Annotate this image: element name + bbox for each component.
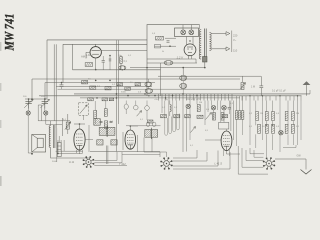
svg-text:1M: 1M (260, 113, 263, 115)
wire bus to power box (47, 39, 147, 41)
trimmer cap IF2b (153, 122, 156, 126)
svg-text:U 11: U 11 (69, 161, 75, 164)
resistor R2 (120, 55, 123, 70)
wire v1 sides (123, 132, 138, 152)
ground chassis (301, 170, 312, 175)
wire s3 right (275, 159, 306, 170)
resistor R33 (94, 101, 97, 124)
wire v2 to s3 (224, 150, 241, 156)
capacitor C3 (119, 66, 126, 71)
resistor R35 arrow (137, 111, 142, 117)
junction dots bus (95, 80, 198, 99)
resistor R26 (258, 124, 261, 133)
wire right columns (250, 101, 301, 158)
transformer Tr2 core (54, 125, 55, 148)
socket S1 (83, 156, 95, 168)
resistor R13 (174, 115, 180, 118)
wire s2 nest (160, 150, 230, 169)
wire long s1 (90, 151, 160, 153)
dial lamp La3 (26, 109, 30, 116)
wire s1 nest (94, 152, 127, 166)
resistor R12 (161, 115, 167, 118)
svg-text:MW 741: MW 741 (2, 14, 17, 52)
wire bus left drop1 (31, 79, 33, 99)
potentiometer P1 (240, 76, 246, 89)
svg-text:T 412: T 412 (119, 162, 126, 166)
coil box L1 (94, 119, 101, 126)
label 0,1uF (272, 91, 286, 93)
value labels group (23, 33, 300, 163)
svg-text:110: 110 (233, 49, 238, 53)
junction dots right bus (249, 95, 298, 126)
volume potentiometer (79, 103, 89, 120)
label GW (297, 155, 302, 158)
wire mid bottom long (116, 152, 160, 155)
wire center drops (162, 101, 234, 153)
transformer core shade (203, 57, 208, 63)
pilot lamp La1 (181, 30, 186, 35)
wire box bottom (147, 59, 197, 63)
svg-text:1 AB 2: 1 AB 2 (86, 54, 93, 57)
switch contact S1b (222, 106, 226, 110)
svg-text:L 41 S: L 41 S (215, 162, 223, 166)
wire v3 left wires (63, 114, 68, 136)
wire junction comb center (159, 94, 233, 101)
wire nested corner A (46, 40, 48, 99)
wire junction comb right (242, 96, 301, 101)
resistor R22 (241, 111, 244, 120)
resistor R10 (104, 121, 107, 129)
resistor R20 (156, 36, 164, 40)
wire if2 drops (144, 127, 152, 153)
parts cluster lower (88, 97, 117, 101)
wire feed y70 (73, 44, 161, 70)
socket S2 (160, 157, 173, 170)
resistor R34 (104, 101, 107, 116)
pilot lamp La2 (189, 30, 194, 35)
IF transformer 2 coils (145, 128, 158, 139)
resistor R1 (85, 63, 93, 67)
wire s1 lines (56, 140, 83, 154)
wire switch hooks (165, 101, 179, 136)
capacitor C33 (180, 83, 187, 94)
scan artifact marks (0, 42, 2, 186)
potentiometer arrow (206, 113, 212, 120)
dial lamp La4 (44, 109, 48, 116)
resistor R16 (197, 115, 203, 118)
IF transformer coils (99, 126, 115, 138)
wire bus2 to power box (63, 43, 147, 45)
wire v3 top (74, 123, 85, 129)
wire nest right mid (283, 145, 296, 148)
wire bus94 end (309, 90, 311, 94)
resistor R14 (185, 115, 191, 118)
wire screened pair L (54, 44, 56, 128)
potentiometer arrow 2 (191, 127, 196, 133)
wire rect to lamps (187, 37, 194, 46)
wire mains top (211, 32, 230, 36)
svg-text:220: 220 (233, 34, 238, 38)
resistor R11 (147, 120, 153, 123)
resistor R8 (135, 83, 141, 86)
wire px links (161, 38, 177, 47)
pickup terminal (303, 81, 311, 96)
wire bus y94 (74, 93, 310, 95)
trimmer T1 (134, 101, 139, 110)
trimmer cap IF2a (146, 122, 149, 126)
transformer Tr secondary (209, 33, 211, 51)
capacitor C2 (109, 55, 111, 70)
trimmer T2 (145, 101, 150, 121)
label mains2 (233, 49, 238, 53)
resistor R29 (285, 112, 288, 121)
variable capacitor C6 (40, 99, 49, 109)
resistor R24 (265, 112, 268, 121)
capacitor C10 (124, 101, 128, 115)
wire transformer tap (196, 25, 200, 63)
wire eye left (86, 52, 90, 58)
tube V2 (221, 131, 232, 151)
variable capacitor C5 (24, 99, 33, 109)
transformer Tr core (205, 29, 207, 61)
wire mains bottom (211, 47, 230, 51)
svg-text:0,1 µF 0,1 µF: 0,1 µF 0,1 µF (272, 91, 286, 93)
wire y121 (38, 120, 70, 122)
wire bus y76 (158, 75, 261, 77)
label +Ua (186, 99, 201, 101)
resistor R32 (292, 124, 295, 133)
fuse Si (155, 45, 161, 48)
socket S3 (263, 157, 276, 170)
resistor R23 (256, 112, 259, 121)
wire s2 uplinks (144, 152, 167, 157)
label V2 type (215, 162, 223, 166)
resistor R28 (272, 124, 275, 133)
switch contact S2 (279, 131, 283, 135)
switch contact S1a (211, 106, 215, 110)
wire osc links (38, 105, 42, 121)
wire v1 top (130, 125, 139, 130)
resistor R4 (90, 86, 96, 89)
wire bus y96 corner (38, 96, 40, 99)
wire screened pair 2 (106, 146, 108, 165)
wire gang bottoms (28, 115, 46, 153)
capacitor C31 (164, 61, 173, 65)
label 1W (69, 161, 75, 164)
resistor R21 (238, 111, 241, 120)
wire nested corner B (62, 44, 64, 82)
wire avc line (126, 125, 205, 127)
resistor R31 (285, 124, 288, 133)
svg-text:1M: 1M (199, 102, 202, 104)
rectifier tube V5 (184, 44, 196, 59)
switch contact S1c (186, 104, 190, 108)
wire right bank drops (237, 96, 243, 146)
svg-text:+Ua +Ug -4,5: +Ua +Ug -4,5 (186, 99, 201, 101)
svg-text:1 M: 1 M (251, 86, 255, 89)
wire v2 left link (205, 139, 221, 141)
resistor R5 (105, 87, 111, 90)
wire tr2 top (50, 121, 52, 126)
label 220V (233, 34, 238, 43)
box diode load (219, 122, 229, 129)
wire lamp feeds (183, 25, 192, 30)
label AM2 (81, 55, 88, 59)
wire gang top (25, 98, 47, 100)
tuning indicator tube V4 (90, 45, 101, 59)
resistor R37 (221, 113, 224, 121)
trimmer caps IF1 (100, 121, 113, 122)
transformer Tr2 primary (49, 126, 51, 148)
wire bus y92 (58, 88, 241, 90)
svg-text:2M: 2M (296, 113, 299, 115)
wire bus y96 (39, 95, 302, 97)
wire tr2 verts (46, 128, 57, 162)
resistor R7 (125, 87, 131, 90)
resistor R3 (82, 81, 88, 84)
resistor R27 (265, 124, 268, 133)
capacitor C34 (145, 79, 152, 89)
wire bus y98 (80, 97, 240, 99)
label 1,2V (177, 56, 185, 60)
resistor R15 (197, 105, 200, 112)
wire bus y88 (57, 86, 153, 88)
wire caps drop (130, 67, 206, 76)
capacitor C30 (167, 41, 170, 42)
transformer Tr primary (199, 30, 201, 59)
resistor R9 vdr (65, 122, 71, 130)
svg-text:+Ug: +Ug (164, 99, 168, 101)
wire screened pair (116, 40, 118, 151)
capacitor C9 (259, 76, 263, 95)
label 1M (251, 86, 255, 89)
wire transformer down (204, 62, 206, 68)
output tube V3 (74, 129, 85, 150)
svg-text:5000: 5000 (121, 92, 127, 94)
wire bus left drop2 (44, 83, 46, 99)
tube V3 pins (77, 150, 83, 154)
title label MW 741 (2, 14, 17, 52)
wire y63 vert (160, 63, 162, 96)
lamp box (175, 28, 199, 37)
wire v3 right (85, 125, 93, 152)
label 0,1 (124, 61, 128, 63)
capacitor C32 (180, 75, 187, 83)
coil box L4 (111, 140, 117, 145)
resistor R19 (235, 111, 238, 120)
wire y124 (46, 123, 62, 125)
capacitor C7 (57, 136, 61, 157)
wire power box outline (147, 25, 200, 96)
wire bus y83 (45, 82, 155, 84)
tube V1 (125, 130, 136, 149)
coil L3 (170, 101, 171, 117)
resistor R25 (272, 112, 275, 121)
wire s3 nest (238, 146, 268, 174)
wire eye bottom (95, 51, 147, 71)
wire mains link (231, 31, 233, 53)
capacitor C35 (145, 89, 153, 97)
resistor R36 (213, 113, 216, 121)
svg-text:V~: V~ (233, 38, 237, 42)
label V1 type (119, 162, 126, 166)
capacitor C1 (102, 56, 105, 70)
speaker LS (31, 135, 45, 155)
resistor R18 (222, 115, 228, 118)
coil box L2 (97, 140, 103, 145)
resistor R30 (292, 112, 295, 121)
capacitor C4 (60, 82, 64, 89)
capacitor C8 (228, 101, 231, 115)
wire tr2 bottom (51, 148, 90, 159)
wire bus y79 (32, 78, 240, 80)
resistor R6 (117, 83, 123, 86)
